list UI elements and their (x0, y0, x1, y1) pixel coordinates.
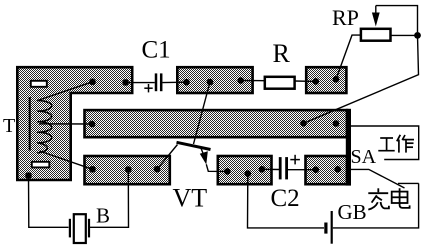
capacitor C1 polarity plus (144, 84, 152, 92)
wire: middle row to work contact (351, 126, 419, 160)
svg-text:SA: SA (351, 146, 377, 168)
wire: coil middle tap to middle row node (39, 123, 92, 125)
switch SA lever (351, 169, 405, 188)
label VT (173, 184, 208, 213)
label C2 (271, 185, 300, 212)
capacitor C1 lead right (162, 81, 186, 83)
node: middle row dots (89, 120, 340, 127)
battery GB negative plate (short) (324, 223, 327, 234)
wire: RP left lead diagonal to top row node (336, 35, 361, 79)
node: top row dots (89, 76, 339, 86)
node: RP junction dot (414, 32, 421, 39)
label T (3, 115, 15, 137)
svg-text:B: B (96, 204, 110, 228)
sounder B body (74, 214, 86, 243)
copper strip: top row segment 3 (306, 67, 346, 93)
capacitor C2 polarity plus (290, 155, 300, 165)
label 充电 (charge) hand-drawn glyphs (368, 188, 409, 209)
resistor R body (265, 77, 295, 89)
label R (273, 39, 291, 68)
capacitor C1 plates (156, 73, 161, 91)
capacitor C2 lead right (288, 169, 316, 171)
svg-text:RP: RP (332, 5, 359, 30)
transformer T winding plate (bottom rectangle) (32, 162, 50, 168)
wire: charge contact (398, 182, 419, 184)
label SA (351, 146, 377, 168)
svg-text:C2: C2 (271, 185, 300, 212)
wire: coil top to top row node (38, 82, 93, 101)
wire: battery GB to charge contact riser (333, 183, 419, 228)
label B (96, 204, 110, 228)
resistor R lead left (241, 80, 265, 82)
battery GB positive plate (long) (331, 211, 333, 244)
sounder B right plate (88, 219, 90, 238)
transformer T winding plate (top rectangle) (31, 81, 47, 87)
label GB (338, 200, 367, 224)
svg-text:R: R (273, 39, 291, 68)
svg-text:C1: C1 (142, 37, 171, 64)
bus bar joining middle and bottom row right ends (SA pole) (346, 109, 351, 186)
potentiometer RP wiper arrow (372, 6, 380, 27)
copper strip: top row segment 2 (177, 67, 252, 93)
label RP (332, 5, 359, 30)
label 工作 (work) hand-drawn glyphs (378, 135, 414, 153)
svg-text:GB: GB (338, 200, 367, 224)
capacitor C2 plates (280, 157, 286, 179)
svg-text:VT: VT (173, 184, 208, 213)
resistor R lead right (295, 80, 316, 82)
wire: RP wiper to right end (top) (376, 6, 418, 32)
wire: block dot down to sounder B (29, 176, 69, 228)
potentiometer RP body (361, 29, 391, 41)
copper strip: left block + top row segment 1 (L-shape) (17, 67, 132, 180)
sounder B left plate (69, 219, 71, 238)
transistor VT emitter lead with arrow (200, 148, 228, 172)
wire: junction down then diagonal into middle row node (304, 35, 419, 123)
node: bottom row dots (89, 166, 341, 177)
wire: coil bottom to bottom row node (40, 151, 93, 169)
capacitor C2 lead left (262, 168, 279, 170)
label C1 (142, 37, 171, 64)
copper strip: bottom row segment 1 (85, 156, 170, 184)
transistor VT base lead (157, 145, 178, 170)
wire: sounder B to bottom row node (90, 170, 129, 228)
transistor VT base bar (177, 142, 211, 149)
node: dot in left block bottom (25, 172, 32, 179)
copper strip: middle row (85, 110, 348, 137)
wire: bottom row node down to battery GB (248, 174, 325, 228)
svg-text:T: T (3, 115, 15, 137)
copper strip: bottom row segment 3 (306, 156, 348, 184)
capacitor C1 lead left (126, 82, 155, 84)
copper strip: bottom row segment 2 (218, 156, 272, 184)
transformer T core (29, 97, 31, 151)
wire: RP right lead to junction (391, 34, 418, 36)
transistor VT collector lead (194, 82, 211, 144)
transformer T winding (coil) (37, 101, 52, 154)
